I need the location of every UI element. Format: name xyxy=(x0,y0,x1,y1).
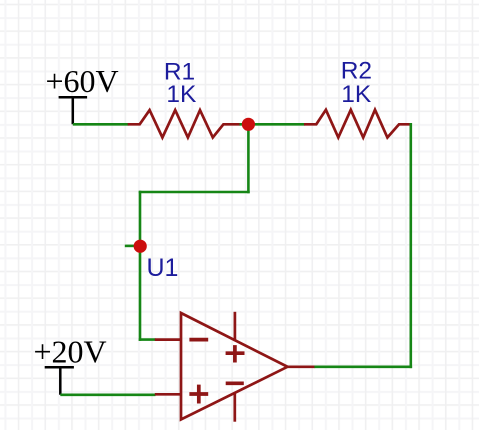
wire right vertical rail xyxy=(409,123,412,368)
pin inverting input xyxy=(155,338,181,341)
wire output to right rail xyxy=(314,365,412,368)
power flag +20V xyxy=(45,366,74,395)
plus sign non-inverting input xyxy=(189,385,208,404)
wire R1 to R2 through junction xyxy=(240,123,305,126)
wire stub at node U1 xyxy=(125,245,140,248)
minus sign inverting input xyxy=(189,338,208,342)
wire into inverting input xyxy=(139,338,156,341)
resistor R1 xyxy=(128,110,241,137)
svg-text:1K: 1K xyxy=(166,81,197,108)
wire jog horizontal xyxy=(139,191,250,194)
pin non-inverting input xyxy=(155,393,181,396)
pin output xyxy=(288,365,316,368)
minus sign V- xyxy=(226,381,244,385)
svg-text:1K: 1K xyxy=(341,81,372,108)
op-amp U1 xyxy=(155,312,315,422)
pin V- (bottom power) xyxy=(233,393,236,421)
node U1 dot xyxy=(134,240,147,253)
svg-text:+60V: +60V xyxy=(46,63,119,99)
svg-text:U1: U1 xyxy=(147,254,179,282)
pin V+ (top power) xyxy=(234,312,237,341)
wire from +60V to R1 xyxy=(73,123,129,126)
plus sign V+ xyxy=(226,345,245,362)
wire junction down xyxy=(247,124,250,193)
power flag +60V xyxy=(59,96,88,124)
junction node dot (R1/R2) xyxy=(242,118,255,131)
resistor R2 xyxy=(304,110,411,138)
wire from +20V to non-inverting input xyxy=(60,393,155,396)
op-amp body triangle xyxy=(181,313,288,420)
svg-text:+20V: +20V xyxy=(34,333,107,369)
wire left vertical to op-amp xyxy=(139,191,142,341)
